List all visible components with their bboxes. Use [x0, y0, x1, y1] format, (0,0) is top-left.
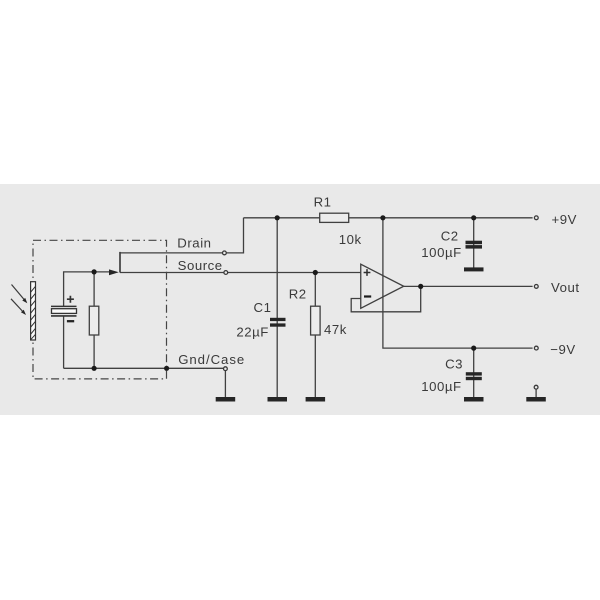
capacitor C3 plates	[466, 372, 482, 380]
capacitor C2 plates	[466, 241, 483, 249]
terminal: drain	[223, 251, 227, 255]
svg-text:10k: 10k	[339, 232, 362, 247]
wire: drain terminal to +9V rail riser	[226, 218, 243, 253]
svg-text:Vout: Vout	[551, 280, 580, 295]
mic internal resistor	[89, 306, 99, 335]
wire: C2 vertical	[473, 218, 475, 268]
wire: C3 vertical	[473, 348, 475, 397]
gray canvas band	[0, 184, 600, 415]
svg-text:100µF: 100µF	[421, 379, 461, 394]
wire: op-amp supply riser and -9V rail	[383, 218, 533, 348]
node: op-amp supply on rail	[380, 215, 385, 220]
wire: R2 vertical to ground	[314, 273, 316, 398]
mic module dash-dot box	[33, 240, 167, 379]
ground: R2	[306, 397, 326, 402]
wire: C1 vertical from rail to ground	[276, 218, 278, 398]
resistor R2	[311, 306, 321, 335]
wire: +9V top rail	[244, 217, 533, 219]
op-amp plus input sign	[364, 269, 371, 276]
node: R2 on source line	[313, 270, 318, 275]
sound arrow 2	[11, 299, 26, 315]
terminal: Vout	[534, 285, 538, 289]
svg-text:R1: R1	[314, 194, 332, 209]
mic membrane (hatched)	[31, 282, 36, 340]
node: case on gnd wire	[164, 366, 169, 371]
svg-text:−9V: −9V	[550, 342, 575, 357]
ground: gnd/case	[216, 397, 236, 402]
svg-text:C2: C2	[441, 229, 459, 244]
ground: C3	[464, 397, 484, 402]
svg-text:+9V: +9V	[552, 212, 577, 227]
node: drain/C1 on rail	[275, 215, 280, 220]
electret capacitor bottom plate	[51, 315, 77, 317]
svg-text:Gnd/Case: Gnd/Case	[178, 352, 245, 367]
terminal: gnd/case	[224, 367, 228, 371]
wire: mic ground/case wire	[64, 367, 224, 369]
svg-text:C1: C1	[254, 300, 272, 315]
ground: C2	[464, 267, 484, 271]
terminal: isolated ground	[534, 385, 538, 389]
resistor R1	[320, 213, 349, 222]
node: C3 on -9V rail	[471, 346, 476, 351]
op-amp minus input sign	[364, 295, 371, 297]
terminal: -9V	[534, 346, 538, 350]
open terminal circles	[223, 216, 539, 389]
op-amp U1 triangle	[361, 264, 404, 308]
JFET gate arrowhead	[109, 269, 119, 275]
ground: C1	[268, 397, 288, 402]
wire: op-amp feedback loop	[351, 286, 421, 311]
svg-text:Drain: Drain	[177, 236, 211, 251]
wire: mic internal resistor top lead	[93, 272, 95, 306]
wire: mic electret top wire to gate arrow	[64, 272, 109, 307]
svg-text:47k: 47k	[324, 322, 347, 337]
node: C2 on rail	[471, 215, 476, 220]
node: feedback on output	[418, 284, 423, 289]
wire: op-amp output to Vout	[404, 285, 533, 287]
electret capacitor dielectric box	[52, 309, 77, 314]
svg-text:C3: C3	[445, 357, 463, 372]
sound arrow 1	[12, 285, 28, 304]
junction dots	[92, 215, 477, 371]
JFET channel bar	[119, 252, 121, 273]
node: electret/resistor top	[92, 269, 97, 274]
svg-text:R2: R2	[289, 287, 307, 302]
terminal: source	[224, 271, 228, 275]
svg-text:22µF: 22µF	[236, 324, 269, 339]
wire: mic internal resistor bottom lead	[93, 335, 95, 368]
wire: mic electret bottom wire	[63, 317, 65, 369]
electret minus sign	[67, 320, 74, 322]
node: resistor bottom on gnd wire	[92, 366, 97, 371]
svg-text:Source: Source	[178, 258, 223, 273]
wire: source line from JFET to op-amp	[120, 272, 361, 274]
wire: gnd/case terminal stub to ground	[224, 371, 226, 398]
wire: drain from JFET to terminal circle	[120, 252, 222, 254]
ground: isolated right	[526, 397, 546, 402]
capacitor C1 plates	[270, 318, 286, 327]
terminal: +9V	[534, 216, 538, 220]
wire: isolated ground stub	[535, 389, 537, 397]
electret capacitor top plate	[51, 305, 77, 307]
svg-text:100µF: 100µF	[421, 245, 461, 260]
electret plus sign	[67, 296, 74, 303]
